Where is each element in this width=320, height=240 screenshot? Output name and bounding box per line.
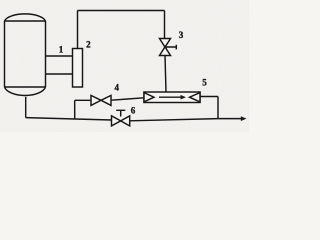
wire: branch line to valve 4 bbox=[75, 99, 91, 101]
wire: valve 3 down to flow element 5 bbox=[165, 56, 166, 93]
wire: branch riser to valve 4 line bbox=[74, 100, 76, 119]
svg-text:4: 4 bbox=[115, 82, 120, 92]
valve V4 (gate valve, horizontal) bbox=[91, 95, 111, 105]
wire: valve 6 to right junction bbox=[130, 119, 218, 121]
wire: right down to valve 3 bbox=[164, 11, 166, 39]
tank (storage vessel) body bbox=[5, 21, 46, 87]
svg-text:3: 3 bbox=[179, 30, 184, 40]
tank bottom dome bbox=[5, 87, 46, 95]
valve V3 (globe valve, vertical) bbox=[160, 39, 177, 56]
valve V6 (globe valve with stem, horizontal) bbox=[112, 110, 130, 126]
wire: top horizontal line bbox=[78, 10, 165, 12]
svg-text:2: 2 bbox=[86, 40, 91, 50]
svg-text:1: 1 bbox=[59, 44, 64, 54]
wire: bottom line from tank to valve 6 bbox=[26, 118, 112, 120]
outlet arrowhead bbox=[241, 116, 247, 121]
pipe nozzle 1 (double line from tank to device 2) bbox=[46, 56, 73, 74]
device 2 (pump block rectangle) bbox=[73, 49, 83, 88]
wire: valve 4 to flow element 5 bbox=[111, 98, 144, 100]
flow element 5 left cone bbox=[144, 93, 154, 102]
flow element 5 (venturi / rotameter body) bbox=[144, 92, 200, 103]
flow element 5 right cone bbox=[190, 93, 201, 102]
tank top dome bbox=[5, 14, 46, 21]
wire: riser from device 2 to top line bbox=[77, 11, 79, 49]
wire: outlet of element 5 to right elbow bbox=[200, 97, 218, 119]
svg-text:6: 6 bbox=[131, 106, 136, 116]
svg-text:5: 5 bbox=[202, 78, 207, 88]
flow element 5 internal flow arrow bbox=[159, 96, 181, 98]
wire: tank bottom outlet stub bbox=[25, 97, 27, 118]
wire: outlet line with arrow bbox=[218, 118, 242, 120]
